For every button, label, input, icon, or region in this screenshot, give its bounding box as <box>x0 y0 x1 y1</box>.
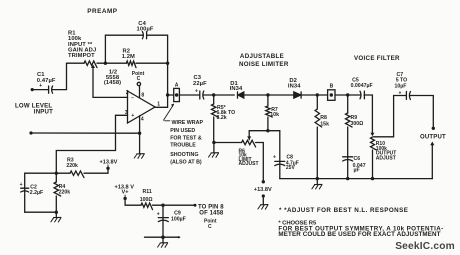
svg-text:+: + <box>195 89 198 95</box>
svg-text:220k: 220k <box>59 190 71 196</box>
svg-text:C: C <box>137 76 141 82</box>
svg-text:SHOOTING: SHOOTING <box>170 152 198 158</box>
svg-text:1.2M: 1.2M <box>122 54 135 60</box>
svg-text:+: + <box>131 113 134 119</box>
wire <box>31 132 140 134</box>
wire: pin 3 to bias divider <box>56 115 115 173</box>
svg-text:ADJUSTABLE: ADJUSTABLE <box>240 53 284 60</box>
svg-text:INPUT: INPUT <box>34 109 53 116</box>
svg-text:4: 4 <box>141 116 144 122</box>
capacitor C5 0.0047uF <box>360 91 361 99</box>
svg-text:0.0047µF: 0.0047µF <box>351 83 373 89</box>
wire: main line to wire-wrap pin A <box>168 94 174 96</box>
svg-text:8: 8 <box>141 93 144 99</box>
svg-text:C6: C6 <box>354 156 361 162</box>
svg-text:+: + <box>273 154 276 160</box>
node: R3/R4/C2 junction <box>55 172 58 175</box>
node: C9 ground cross junction <box>161 235 165 239</box>
resistor R11 100ohm <box>141 203 153 210</box>
svg-text:µF: µF <box>354 168 360 174</box>
wire <box>25 211 57 213</box>
capacitor C6 0.047uF <box>343 156 353 158</box>
node: R11/C9 junction <box>161 204 164 207</box>
wire <box>52 63 66 89</box>
node: Point C circle <box>137 82 140 85</box>
svg-text:2.2µF: 2.2µF <box>30 190 43 196</box>
resistor R9 300ohm <box>347 95 349 113</box>
svg-text:220k: 220k <box>66 163 78 169</box>
capacitor C2 2.2uF <box>21 187 29 189</box>
resistor R1 100k trimpot <box>84 61 97 68</box>
node: rail/R10 junction <box>371 177 374 180</box>
wire <box>67 62 85 64</box>
resistor R7 10k <box>267 95 269 106</box>
wire <box>179 94 199 96</box>
node: LOW LEVEL INPUT top terminal <box>31 88 34 91</box>
ground below R4 <box>55 212 57 217</box>
resistor R3 220k <box>70 171 84 178</box>
resistor R2 1.2M <box>126 61 136 68</box>
svg-text:ADJUST: ADJUST <box>376 155 396 161</box>
svg-text:+: + <box>399 91 402 97</box>
capacitor C8 4.7uF 25V <box>279 131 281 179</box>
svg-text:300Ω: 300Ω <box>351 121 364 127</box>
wire <box>204 94 235 96</box>
svg-text:A: A <box>175 83 179 89</box>
svg-text:NOISE LIMITER: NOISE LIMITER <box>239 61 289 68</box>
svg-text:25V: 25V <box>286 165 296 171</box>
svg-text:* *ADJUST FOR BEST N.L. RESPON: * *ADJUST FOR BEST N.L. RESPONSE <box>279 207 408 214</box>
node: R8 junction <box>316 93 319 96</box>
svg-text:+: + <box>39 83 42 89</box>
node: OUTPUT top terminal <box>432 127 435 130</box>
svg-text:FOR TEST &: FOR TEST & <box>170 136 202 142</box>
resistor R4 220k <box>55 173 57 182</box>
wire <box>56 172 70 174</box>
svg-text:TRIMPOT: TRIMPOT <box>68 53 95 59</box>
svg-text:R8: R8 <box>320 115 327 121</box>
wire: output pin 1 <box>155 106 168 108</box>
wire: pin 8 to Point C <box>139 86 141 98</box>
wire <box>32 89 48 91</box>
svg-text:C: C <box>208 224 212 230</box>
wire <box>84 169 108 173</box>
capacitor C1 0.47uF <box>48 86 50 93</box>
svg-text:V+: V+ <box>122 190 130 196</box>
node: LOW LEVEL INPUT bottom terminal <box>29 131 32 134</box>
svg-text:C3: C3 <box>194 75 202 81</box>
wire wrap pin A box <box>174 88 180 101</box>
svg-text:−: − <box>131 95 134 101</box>
ground below R5 <box>213 143 215 153</box>
svg-text:TROUBLE: TROUBLE <box>170 143 196 149</box>
node: output/feedback junction <box>166 93 169 96</box>
op-amp U1 1/2 5558 (1458) <box>128 91 156 123</box>
wire <box>153 204 196 206</box>
svg-text:R11: R11 <box>143 189 152 195</box>
node: R1/R2/C4 junction <box>104 62 107 65</box>
svg-text:+: + <box>157 211 160 217</box>
resistor R5 6.8k-8.2k <box>213 95 215 104</box>
node: OUTPUT bottom terminal arrow <box>431 144 433 179</box>
ground below +13.8V (R6) <box>262 194 265 197</box>
wire <box>97 62 126 64</box>
wire <box>410 96 433 128</box>
svg-text:OF 1458: OF 1458 <box>199 211 224 217</box>
svg-text:2: 2 <box>126 90 129 96</box>
wire <box>25 173 57 212</box>
svg-text:(1458): (1458) <box>104 80 121 86</box>
wire wrap pin B box <box>328 90 335 101</box>
svg-text:+13.8V: +13.8V <box>100 159 118 165</box>
diode D1 1N34 <box>238 92 244 98</box>
svg-text:OUTPUT: OUTPUT <box>420 134 446 140</box>
svg-text:B: B <box>330 84 334 90</box>
wire: R1 wiper to pin 2 <box>93 67 128 98</box>
svg-text:PREAMP: PREAMP <box>87 8 118 15</box>
wire <box>242 94 294 96</box>
node: R9 junction <box>346 93 349 96</box>
svg-text:100µF: 100µF <box>137 26 154 32</box>
wire <box>335 94 360 96</box>
wire: C5 to R10 wiper <box>364 95 372 135</box>
wire <box>105 35 142 63</box>
wire <box>125 198 141 205</box>
svg-text:IN34: IN34 <box>288 84 301 90</box>
node: R7 junction <box>266 93 269 96</box>
node: +13.8V V+ terminal <box>123 197 126 200</box>
node: +13.8V terminal (R6) <box>262 180 265 183</box>
wire <box>136 62 168 64</box>
wire: R10 top tap to C7 <box>374 96 394 137</box>
svg-text:METER COULD BE USED FOR EXACT: METER COULD BE USED FOR EXACT ADJUSTMENT <box>278 231 440 238</box>
resistor R6 10k limit adjust <box>214 142 242 144</box>
wire <box>301 94 328 96</box>
capacitor C3 22uF <box>199 91 201 99</box>
svg-text:VOICE FILTER: VOICE FILTER <box>354 55 400 62</box>
wire: pin 4 down <box>139 116 141 154</box>
ground below C9 <box>162 237 164 242</box>
svg-text:8.2k: 8.2k <box>217 115 227 121</box>
svg-text:ADJUST: ADJUST <box>239 161 259 167</box>
node: +13.8V terminal (R3) <box>106 167 109 170</box>
svg-text:SeekIC.com: SeekIC.com <box>395 241 455 252</box>
capacitor C7 5-10uF <box>394 95 407 97</box>
svg-text:+13.8V: +13.8V <box>254 187 272 193</box>
wire: R6 wiper to R7/C8 <box>249 131 280 140</box>
capacitor C9 100uF <box>162 205 164 237</box>
resistor R10 100k output adjust <box>371 137 377 150</box>
svg-text:WIRE WRAP: WIRE WRAP <box>172 120 204 126</box>
node: to pin 8 terminal <box>194 204 197 207</box>
svg-text:3: 3 <box>125 110 128 116</box>
wire: bottom ground rail <box>280 178 433 180</box>
ground below op-amp <box>134 154 144 159</box>
node: R2/C4 right junction <box>166 62 169 65</box>
node: R7 bottom junction <box>266 129 269 132</box>
wire: annotation pointer to A <box>164 105 174 121</box>
capacitor C4 100uF <box>142 32 143 39</box>
svg-text:10µF: 10µF <box>395 83 407 89</box>
svg-text:(ALSO AT B): (ALSO AT B) <box>170 159 202 165</box>
diode D2 1N34 <box>294 92 301 98</box>
svg-text:IN34: IN34 <box>230 86 243 92</box>
node: R4/C2 bottom junction <box>55 211 58 214</box>
svg-text:1: 1 <box>157 102 160 108</box>
svg-text:+: + <box>20 182 23 188</box>
svg-text:15k: 15k <box>320 121 329 127</box>
svg-text:100µF: 100µF <box>171 217 186 223</box>
svg-text:10k: 10k <box>270 112 279 118</box>
node: rail/R9-C6 junction <box>346 177 349 180</box>
wire <box>147 35 168 107</box>
svg-text:PIN USED: PIN USED <box>170 128 195 134</box>
resistor R8 15k <box>316 95 318 109</box>
node: pin4 / input return junction <box>138 132 141 135</box>
node: R5/R6 junction <box>212 141 215 144</box>
wire: pin 3 input <box>116 114 128 116</box>
svg-text:100Ω: 100Ω <box>140 197 153 203</box>
wire: ground cross bar <box>145 236 180 238</box>
node: R5 junction <box>212 93 215 96</box>
svg-text:22µF: 22µF <box>193 81 207 87</box>
node: rail/R8 junction + ground <box>316 177 319 180</box>
